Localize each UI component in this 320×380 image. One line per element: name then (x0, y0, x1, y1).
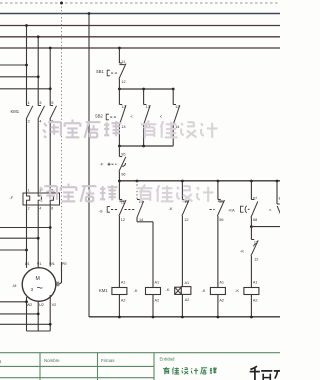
svg-text:1: 1 (28, 188, 30, 192)
svg-text:A2: A2 (219, 299, 224, 303)
svg-text:PE: PE (62, 262, 68, 266)
svg-text:13: 13 (175, 105, 179, 109)
svg-text:56: 56 (219, 218, 223, 222)
svg-text:14: 14 (139, 218, 143, 222)
svg-text:87: 87 (279, 197, 280, 201)
svg-text:V1: V1 (37, 262, 42, 266)
svg-text:A2: A2 (155, 299, 160, 303)
svg-text:KM1: KM1 (99, 288, 108, 293)
svg-text:68: 68 (253, 218, 257, 222)
svg-text:13: 13 (121, 105, 125, 109)
svg-text:Firmas: Firmas (101, 358, 115, 363)
svg-text:4: 4 (39, 119, 42, 124)
svg-text:-K: -K (169, 206, 173, 211)
svg-text:12: 12 (184, 218, 188, 222)
svg-text:~: ~ (37, 283, 43, 295)
svg-text:1: 1 (28, 100, 31, 105)
svg-text:3: 3 (31, 287, 34, 292)
svg-text:14: 14 (121, 125, 125, 129)
svg-text:12: 12 (121, 218, 125, 222)
svg-text:-F: -F (10, 195, 14, 200)
svg-text:11: 11 (121, 60, 125, 64)
svg-text:A1: A1 (253, 281, 258, 285)
svg-text:12: 12 (121, 80, 125, 84)
svg-text:2: 2 (28, 207, 30, 211)
svg-text:-K: -K (166, 287, 170, 292)
svg-text:A1: A1 (155, 281, 160, 285)
svg-text:<: < (130, 114, 133, 119)
svg-text:4: 4 (39, 207, 41, 211)
svg-text:SB2: SB2 (95, 114, 103, 119)
svg-text:95: 95 (121, 153, 125, 157)
svg-text:V2: V2 (52, 303, 57, 307)
svg-text:U1: U1 (25, 262, 30, 266)
svg-text:12: 12 (254, 258, 258, 262)
svg-text:96: 96 (121, 172, 125, 176)
svg-text:-KA: -KA (228, 207, 235, 212)
svg-text:Nombre: Nombre (44, 358, 60, 363)
svg-text:13: 13 (146, 105, 150, 109)
svg-text:-M: -M (12, 284, 16, 288)
svg-text:-S: -S (99, 208, 103, 213)
svg-text:M: M (36, 276, 40, 282)
svg-text:s: s (0, 359, 2, 364)
svg-text:W2: W2 (27, 303, 33, 307)
svg-text:A2: A2 (253, 299, 258, 303)
svg-text:SB1: SB1 (96, 69, 104, 74)
svg-text:11: 11 (121, 200, 125, 204)
svg-text:<: < (269, 207, 272, 212)
svg-text:55: 55 (219, 200, 223, 204)
svg-text:-F: -F (100, 162, 104, 167)
svg-text:A1: A1 (121, 281, 126, 285)
svg-text:A2: A2 (121, 299, 126, 303)
svg-text:A1: A1 (219, 281, 224, 285)
svg-text:11: 11 (254, 241, 258, 245)
svg-text:W1: W1 (49, 262, 55, 266)
svg-text:-K: -K (134, 288, 138, 293)
svg-text:5: 5 (51, 100, 54, 105)
svg-text:2: 2 (28, 119, 31, 124)
svg-text:-K: -K (202, 288, 206, 293)
svg-text:KM1: KM1 (11, 109, 20, 114)
svg-text:-K: -K (240, 248, 244, 253)
svg-text:U2: U2 (39, 303, 44, 307)
svg-text:-K: -K (235, 288, 239, 293)
svg-text:A1: A1 (185, 281, 190, 285)
svg-text:6: 6 (51, 207, 53, 211)
svg-text:Entidad: Entidad (160, 357, 175, 362)
svg-text:67: 67 (253, 197, 257, 201)
svg-text:3: 3 (39, 100, 42, 105)
svg-text:A2: A2 (185, 298, 190, 302)
svg-text:<: < (160, 114, 163, 119)
